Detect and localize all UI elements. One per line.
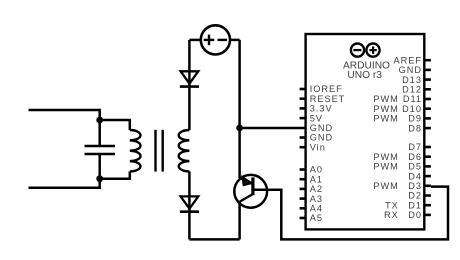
svg-text:A5: A5 [310, 213, 323, 223]
pin stubs left [300, 89, 306, 218]
Arduino logo [351, 44, 380, 57]
wire secondary top [188, 87, 191, 130]
svg-text:5V: 5V [310, 113, 323, 123]
svg-text:A0: A0 [310, 165, 323, 175]
svg-text:D12: D12 [402, 85, 422, 95]
svg-text:D11: D11 [403, 94, 422, 104]
svg-text:3.3V: 3.3V [310, 104, 333, 114]
wire primary top link [100, 120, 130, 130]
diode D1 [180, 40, 199, 87]
pin labels left [310, 84, 346, 223]
svg-text:A4: A4 [310, 204, 323, 214]
IC U1 Arduino UNO box [306, 34, 425, 229]
svg-text:D13: D13 [402, 75, 422, 85]
wire secondary bottom [188, 172, 191, 212]
svg-text:PWM: PWM [373, 114, 398, 124]
svg-text:AREF: AREF [393, 55, 422, 65]
wire emitter to bottom [238, 202, 241, 240]
inductor L1 transformer primary [130, 130, 141, 172]
svg-text:PWM: PWM [373, 152, 398, 162]
wire antenna top lead [29, 110, 100, 120]
svg-text:Vin: Vin [310, 142, 326, 152]
pin labels PWM/TX/RX [373, 94, 398, 220]
inductor L2 transformer secondary [179, 130, 190, 172]
svg-text:D5: D5 [408, 162, 422, 172]
svg-text:GND: GND [310, 133, 333, 143]
svg-text:TX: TX [385, 200, 399, 210]
svg-text:GND: GND [399, 65, 422, 75]
wire base to D3 [255, 187, 449, 240]
wire right branch vertical [238, 40, 241, 178]
svg-text:RESET: RESET [310, 94, 346, 104]
svg-text:A3: A3 [310, 194, 323, 204]
svg-text:D3: D3 [408, 181, 422, 191]
node junction top-left [96, 117, 103, 124]
node junction right [236, 125, 243, 132]
svg-text:D8: D8 [408, 123, 422, 133]
svg-text:GND: GND [310, 123, 333, 133]
capacitor C1 [85, 120, 116, 179]
svg-text:D1: D1 [408, 200, 422, 210]
svg-text:A2: A2 [310, 184, 323, 194]
svg-text:D4: D4 [408, 171, 422, 181]
wire primary bottom link [100, 172, 130, 179]
pin labels right [393, 55, 422, 220]
wire antenna bottom lead [29, 179, 100, 188]
transformer core [156, 130, 163, 172]
svg-text:UNO r3: UNO r3 [347, 70, 382, 81]
wire to GND pin [240, 127, 306, 130]
diode D2 [180, 196, 199, 239]
transistor Q1 [234, 175, 267, 208]
svg-text:D0: D0 [408, 210, 422, 220]
svg-text:PWM: PWM [373, 104, 398, 114]
svg-text:A1: A1 [310, 174, 323, 184]
node junction bottom-left [96, 175, 103, 182]
svg-text:PWM: PWM [373, 94, 398, 104]
svg-text:IOREF: IOREF [310, 84, 343, 94]
voltage source V1 [189, 25, 239, 54]
svg-text:D10: D10 [402, 104, 422, 114]
wire bottom left [189, 238, 239, 241]
svg-text:RX: RX [384, 210, 399, 220]
svg-text:D7: D7 [408, 142, 422, 152]
svg-text:D6: D6 [408, 152, 422, 162]
svg-text:D2: D2 [408, 191, 422, 201]
svg-text:PWM: PWM [373, 162, 398, 172]
svg-text:PWM: PWM [373, 181, 398, 191]
svg-text:D9: D9 [408, 114, 422, 124]
pin stubs right [424, 60, 431, 215]
